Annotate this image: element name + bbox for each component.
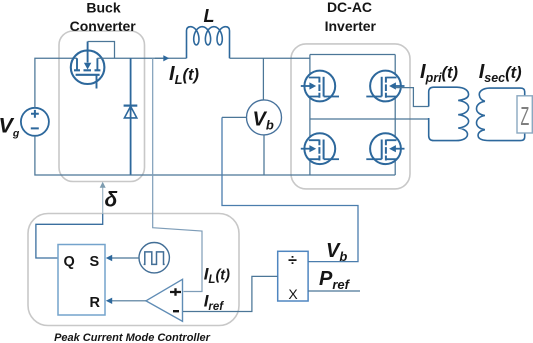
wire pulse to S	[110, 257, 139, 259]
wire comparator to R	[110, 300, 146, 302]
transistor Q4 bottom-right	[366, 133, 404, 164]
transformer secondary winding	[477, 88, 525, 141]
divider block	[278, 251, 308, 301]
arrow IL on bus	[155, 57, 163, 59]
svg-text:Inverter: Inverter	[325, 18, 377, 34]
svg-text:δ: δ	[105, 189, 118, 212]
wire delta from latch Q	[36, 214, 103, 259]
svg-text:Z: Z	[521, 103, 530, 132]
transistor Q2 top-right	[366, 71, 404, 102]
wire bottom bus	[35, 136, 395, 175]
svg-text:÷: ÷	[288, 253, 297, 270]
dc-ac inverter enclosure	[291, 44, 410, 189]
svg-text:Q: Q	[64, 254, 75, 270]
svg-text:S: S	[90, 254, 100, 270]
inductor L	[187, 27, 230, 59]
buck converter enclosure	[59, 31, 145, 182]
load Z	[517, 96, 532, 133]
svg-text:IL(t): IL(t)	[169, 63, 200, 87]
comparator	[146, 279, 183, 321]
sr latch	[58, 245, 105, 316]
diode freewheel	[124, 58, 138, 175]
voltmeter Vb	[222, 58, 282, 175]
svg-text:L: L	[204, 6, 215, 26]
voltage source Vg	[21, 108, 49, 136]
wire inductor to inverter	[230, 57, 310, 59]
svg-text:IL(t): IL(t)	[204, 265, 230, 287]
wire Iref from divider	[183, 276, 278, 311]
transistor Q1 top-left	[301, 71, 339, 102]
svg-text:Peak Current Mode Controller: Peak Current Mode Controller	[54, 332, 211, 343]
wire top bus from Vg	[35, 58, 77, 108]
wire IL sense tap	[153, 58, 202, 291]
svg-text:Buck: Buck	[86, 0, 120, 16]
wire bus mosfet to inductor	[97, 57, 186, 59]
controller enclosure	[28, 214, 239, 326]
wire Vb sense to divider	[222, 117, 358, 261]
svg-text:Converter: Converter	[70, 18, 137, 34]
mosfet buck switch	[71, 42, 105, 89]
wire inverter to primary top	[395, 88, 429, 107]
svg-text:X: X	[288, 286, 298, 302]
pulse generator	[139, 243, 169, 273]
svg-text:R: R	[90, 295, 101, 311]
inverter bridge frame	[310, 55, 429, 176]
transformer primary winding	[429, 87, 469, 140]
svg-text:DC-AC: DC-AC	[327, 0, 372, 15]
transistor Q3 bottom-left	[301, 133, 339, 164]
wire gate loop	[88, 42, 115, 59]
wire Pref input	[308, 290, 360, 292]
